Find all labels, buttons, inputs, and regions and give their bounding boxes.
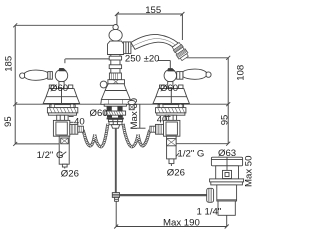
right handle lever tip	[206, 72, 211, 77]
lift rod	[115, 128, 117, 193]
right handle base bump B	[179, 85, 183, 89]
svg-text:185: 185	[4, 56, 15, 72]
right valve inlet tube	[167, 136, 177, 159]
deck grommet right of column	[128, 100, 135, 104]
svg-text:Ø60: Ø60	[160, 83, 178, 94]
svg-text:155: 155	[145, 5, 161, 16]
column mounting stud right lower	[118, 115, 123, 117]
left valve body	[53, 120, 69, 136]
lift rod guide	[111, 125, 119, 129]
svg-text:1/2" G: 1/2" G	[178, 149, 205, 160]
column mounting stud right upper	[117, 106, 122, 111]
svg-text:Ø60: Ø60	[90, 108, 108, 119]
left handle lever	[25, 70, 48, 80]
right handle collar	[177, 72, 183, 80]
svg-text:1 1/4": 1 1/4"	[197, 207, 222, 218]
dimension Max 190 line	[114, 201, 229, 228]
column ball finial	[109, 29, 122, 41]
dimension Max 60 bracket	[137, 105, 146, 129]
svg-text:Ø63: Ø63	[218, 148, 236, 159]
waste rod hole	[223, 170, 232, 178]
leader Ø26 left	[64, 167, 66, 169]
column bell base	[101, 84, 130, 100]
left handle bell base	[43, 89, 79, 104]
pop-up rod fitting	[112, 193, 119, 198]
leader 1/2 G right	[176, 153, 179, 156]
leader 250 plus-minus 20 right part	[157, 61, 170, 69]
left handle cap	[59, 68, 67, 71]
left valve washer 3	[48, 113, 76, 115]
svg-text:250 ±20: 250 ±20	[125, 54, 160, 65]
column ring 2	[109, 65, 121, 69]
waste tailpiece lower	[217, 200, 237, 216]
rod clamp screw	[207, 188, 214, 202]
flexible hose left	[83, 124, 108, 147]
svg-text:108: 108	[236, 65, 247, 81]
right valve washer 3	[157, 113, 185, 115]
svg-text:Max 50: Max 50	[244, 156, 255, 187]
spout root collar	[123, 42, 130, 54]
right valve shank	[165, 115, 176, 120]
spout tube	[131, 34, 178, 49]
waste tailpiece	[217, 185, 237, 201]
left handle collar	[48, 72, 53, 80]
left handle neck	[59, 82, 64, 89]
right valve outlet nut	[156, 124, 164, 134]
right handle lever	[183, 69, 206, 79]
column mounting stud left upper	[107, 106, 112, 111]
spout aerator	[171, 42, 189, 62]
left handle lever tip	[20, 73, 25, 78]
left handle base bump A	[49, 85, 53, 89]
waste ring 1	[210, 179, 244, 182]
leader 1/2 G left	[61, 152, 67, 156]
left valve inlet tube	[59, 136, 69, 164]
waste ring 2	[211, 182, 243, 185]
column ring 1	[109, 56, 121, 60]
column base skirt	[101, 99, 131, 104]
right handle cap	[168, 68, 176, 71]
right valve hose nipple	[150, 126, 156, 132]
dimension line left vertical (185 / 95)	[13, 23, 114, 146]
dimension line right vertical (108 / 95)	[176, 56, 230, 146]
left valve washer 1	[50, 105, 75, 108]
waste flange	[211, 157, 242, 166]
right valve washer 1	[158, 105, 184, 108]
column mounting dark band	[107, 118, 124, 120]
deck line	[15, 103, 228, 105]
leader 250 plus-minus 20 left part	[65, 59, 111, 63]
column mounting stud left lower	[107, 115, 112, 117]
left handle ball	[55, 69, 67, 81]
left valve hose nipple	[78, 126, 84, 132]
column collar	[108, 80, 125, 84]
dimension ticks 40 left	[69, 117, 74, 123]
svg-text:1/2" G: 1/2" G	[37, 150, 64, 161]
pop-up horizontal rod	[120, 194, 207, 196]
pop-up knob on column	[106, 86, 110, 89]
left valve lock nut	[47, 108, 77, 113]
column knurl band	[109, 73, 121, 80]
svg-text:Ø26: Ø26	[61, 169, 79, 180]
column upper body	[108, 41, 124, 54]
right handle neck	[168, 82, 173, 89]
column mounting hatched band	[105, 111, 126, 115]
column top screw	[113, 25, 118, 30]
flexible hose right	[123, 124, 150, 147]
svg-text:Ø26: Ø26	[167, 167, 185, 178]
right valve body	[164, 120, 180, 136]
left valve thread band	[61, 138, 69, 144]
dimension line 155 top	[115, 12, 184, 40]
waste body	[216, 166, 239, 179]
right handle ball	[164, 69, 176, 81]
leader Ø26 right	[170, 164, 172, 166]
right valve end stub	[169, 159, 174, 164]
svg-text:95: 95	[3, 116, 14, 127]
column mounting nut row 2	[109, 122, 122, 125]
column shaft	[111, 55, 120, 80]
column mounting nut row 1	[108, 119, 122, 121]
left valve shank	[57, 115, 68, 120]
right handle base bump A	[160, 85, 164, 89]
right valve thread band	[167, 139, 177, 146]
svg-text:95: 95	[220, 115, 231, 126]
dimension ticks 40 right	[166, 117, 171, 123]
column mounting washer below deck	[104, 104, 126, 106]
svg-text:Ø60: Ø60	[50, 83, 68, 94]
pop-up rod fitting stub	[115, 197, 119, 201]
right handle bell base	[153, 89, 189, 104]
left handle base bump B	[68, 85, 72, 89]
left valve outlet nut	[70, 124, 78, 134]
left valve end stub	[62, 164, 67, 167]
right valve lock nut	[156, 108, 186, 113]
